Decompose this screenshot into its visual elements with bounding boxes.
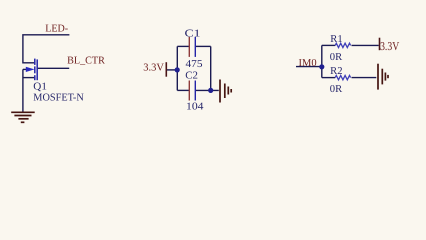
svg-text:MOSFET-N: MOSFET-N xyxy=(33,92,84,103)
svg-text:3.3V: 3.3V xyxy=(380,39,399,53)
svg-text:0R: 0R xyxy=(330,52,342,63)
svg-text:C2: C2 xyxy=(185,70,198,81)
svg-text:Q1: Q1 xyxy=(33,82,47,93)
svg-text:IM0: IM0 xyxy=(299,58,317,69)
svg-text:3.3V: 3.3V xyxy=(143,63,164,74)
svg-text:104: 104 xyxy=(186,102,204,113)
svg-text:0R: 0R xyxy=(330,84,342,95)
svg-text:R2: R2 xyxy=(330,66,342,77)
svg-text:LED-: LED- xyxy=(45,24,68,35)
svg-text:C1: C1 xyxy=(185,28,201,39)
svg-text:R1: R1 xyxy=(330,34,342,45)
svg-text:BL_CTR: BL_CTR xyxy=(67,56,105,67)
svg-text:475: 475 xyxy=(186,59,203,70)
